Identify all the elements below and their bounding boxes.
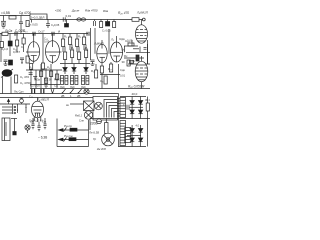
diode D1 bbox=[63, 64, 67, 74]
band switch lines bbox=[0, 104, 30, 114]
resistor R10 bbox=[76, 39, 79, 52]
resistor R15 right bbox=[146, 97, 149, 147]
diode D10 bbox=[130, 138, 134, 142]
link wire with cap plus bbox=[123, 103, 143, 110]
wire drop x66 bbox=[66, 20, 68, 24]
resistor R12 bbox=[15, 75, 18, 83]
label 2V marks bbox=[61, 94, 81, 98]
svg-text:С₁₀: С₁₀ bbox=[23, 29, 28, 33]
diode D7 bbox=[138, 110, 142, 114]
lamp resistor bbox=[105, 119, 108, 134]
svg-text:С₅: С₅ bbox=[21, 45, 24, 49]
wire between tubes bbox=[42, 34, 44, 71]
diode D8 bbox=[130, 129, 134, 133]
IF can L3 bbox=[82, 76, 89, 85]
tube V2 triode bbox=[46, 34, 62, 64]
svg-text:С₇ 0,05: С₇ 0,05 bbox=[102, 29, 111, 33]
svg-text:R₂₂ 0,056М: R₂₂ 0,056М bbox=[128, 85, 145, 89]
wire top bus left bbox=[0, 15, 30, 17]
svg-text:С₁₇ 0,05: С₁₇ 0,05 bbox=[30, 84, 40, 88]
svg-text:R₃: R₃ bbox=[78, 35, 81, 39]
filament arrow 2 bbox=[59, 138, 89, 141]
fuse bbox=[97, 119, 102, 124]
bottom right line bbox=[119, 146, 147, 148]
ground bbox=[1, 25, 6, 28]
antenna panel bbox=[2, 118, 10, 141]
svg-text:R₁: R₁ bbox=[64, 35, 67, 39]
svg-text:Лк3а: Лк3а bbox=[34, 78, 40, 82]
capacitor C4 blob bbox=[65, 24, 69, 28]
wire drop from block bbox=[46, 16, 48, 20]
wire from block down bbox=[31, 20, 33, 23]
resistor R10b bbox=[78, 47, 81, 64]
IF can L1 bbox=[61, 76, 68, 85]
capacitor series bus2 a bbox=[33, 32, 35, 36]
right rail bbox=[147, 44, 149, 64]
motor circle bbox=[95, 102, 103, 110]
wire bus2 bbox=[0, 33, 88, 35]
resistor R6 bbox=[16, 40, 19, 52]
svg-text:Схх: Схх bbox=[30, 121, 35, 124]
svg-text:R₅: R₅ bbox=[29, 66, 32, 70]
diode D4 bbox=[130, 101, 134, 105]
svg-text:Рн.пр: Рн.пр bbox=[64, 124, 72, 128]
resistor R7 bbox=[22, 38, 25, 52]
tube V7 magic eye bbox=[32, 98, 44, 123]
svg-text:Rдв: Rдв bbox=[103, 9, 109, 13]
right column text specks bbox=[120, 37, 133, 64]
IF can L2 bbox=[71, 76, 78, 85]
mid ladder wires bbox=[63, 34, 84, 40]
svg-text:Дн 4Об: Дн 4Об bbox=[96, 147, 106, 150]
wire verticals mid right bbox=[91, 28, 110, 60]
svg-text:Сдв: Сдв bbox=[130, 59, 135, 63]
switch tick 2 bbox=[64, 138, 67, 142]
tube V5 heptode top right bbox=[136, 20, 148, 44]
diode D2 bbox=[72, 64, 76, 74]
coil Lk2a variable bbox=[1, 69, 13, 94]
resistor R3 bbox=[100, 20, 103, 28]
svg-text:R₂: R₂ bbox=[71, 46, 74, 50]
svg-text:Сх: Сх bbox=[121, 48, 125, 52]
left ladder wires bbox=[1, 34, 24, 63]
dial lamp block 2x0,5 bbox=[30, 14, 47, 20]
svg-text:R₁₆: R₁₆ bbox=[91, 69, 95, 73]
capacitor blob C8 bbox=[8, 41, 12, 56]
svg-text:R₇1,0: R₇1,0 bbox=[54, 78, 61, 82]
svg-text:40,0: 40,0 bbox=[132, 92, 138, 96]
svg-text:R₆: R₆ bbox=[47, 66, 50, 70]
resistor R8b bbox=[64, 47, 67, 64]
capacitor C6 bbox=[94, 20, 96, 27]
svg-text:С₁₆ 30: С₁₆ 30 bbox=[44, 78, 52, 82]
svg-text:Rх: Rх bbox=[124, 54, 128, 58]
chassis line 1 bbox=[0, 93, 119, 95]
lower mid cluster bbox=[26, 64, 62, 89]
tube V4 bbox=[111, 36, 124, 62]
svg-text:С₂₅: С₂₅ bbox=[29, 94, 33, 98]
svg-text:0,01: 0,01 bbox=[120, 74, 126, 78]
svg-text:Сх17: Сх17 bbox=[38, 30, 45, 34]
wire v x90 bbox=[89, 119, 91, 131]
switch contacts bbox=[62, 89, 82, 94]
svg-text:R₄1,0: R₄1,0 bbox=[1, 47, 8, 51]
right mid components bbox=[124, 40, 150, 66]
wire drop left bbox=[3, 16, 5, 22]
svg-text:Лк₅ Сдп: Лк₅ Сдп bbox=[14, 90, 24, 94]
capacitor series bus2 c bbox=[87, 32, 89, 36]
svg-text:Схх: Схх bbox=[42, 121, 47, 124]
svg-text:С₁ 470: С₁ 470 bbox=[20, 75, 29, 79]
rectifier top line bbox=[120, 96, 146, 98]
resistor under tube C bbox=[100, 66, 103, 89]
wire h line y88.5 bbox=[30, 88, 150, 90]
tube V1 triode bbox=[26, 34, 40, 64]
filament arrow 1 bbox=[59, 128, 89, 131]
svg-text:2В: 2В bbox=[77, 94, 81, 98]
rectifier column wires bbox=[132, 97, 141, 119]
diode D11 bbox=[138, 138, 142, 142]
trimmer arrow bbox=[7, 99, 9, 104]
svg-text:Рн.тв: Рн.тв bbox=[64, 134, 73, 138]
svg-text:+: + bbox=[123, 103, 125, 107]
capacitor C3 series on bus bbox=[63, 17, 65, 21]
svg-text:ЛкС: ЛкС bbox=[70, 85, 75, 89]
speaker Gr bbox=[102, 133, 115, 146]
output transformer winding bbox=[117, 99, 120, 117]
resistor R9 bbox=[69, 37, 72, 50]
svg-text:ЛкС: ЛкС bbox=[60, 85, 65, 89]
svg-text:Сдв: Сдв bbox=[120, 68, 125, 72]
resistor series bus2 bbox=[2, 32, 8, 35]
svg-text:2В: 2В bbox=[61, 94, 65, 98]
power transformer winding lower bbox=[120, 121, 126, 146]
secondary winding box bbox=[125, 128, 131, 143]
svg-text:≈250: ≈250 bbox=[55, 9, 62, 13]
jack circle bbox=[20, 98, 24, 104]
svg-text:С₂₄: С₂₄ bbox=[125, 39, 130, 43]
svg-text:R₂₀ 470: R₂₀ 470 bbox=[118, 11, 129, 15]
wire h y118.5 bbox=[90, 118, 150, 120]
phono jack block bbox=[84, 101, 95, 111]
resistor R11b bbox=[85, 45, 88, 64]
svg-text:Л₄ 6Е1П: Л₄ 6Е1П bbox=[36, 97, 50, 101]
svg-text:Л₅6И1П: Л₅6И1П bbox=[136, 11, 149, 15]
resistor R11 bbox=[83, 37, 86, 50]
resistor R5 series on bus bbox=[132, 18, 139, 22]
diode D9 bbox=[138, 129, 142, 133]
svg-text:30: 30 bbox=[122, 60, 126, 64]
diode D6 bbox=[130, 110, 134, 114]
wire drop x21 bbox=[20, 16, 22, 23]
resistor R9b bbox=[71, 45, 74, 64]
svg-text:С₂₀: С₂₀ bbox=[54, 84, 58, 88]
filament drops bbox=[31, 118, 46, 131]
coupling caps on chassis bbox=[32, 89, 54, 94]
svg-text:0,047: 0,047 bbox=[13, 50, 20, 54]
svg-text:2×0,5 ДБЛ: 2×0,5 ДБЛ bbox=[31, 15, 45, 19]
right mid cluster bbox=[91, 60, 121, 89]
wire x17.5 bbox=[17, 104, 18, 113]
switch tick 1 bbox=[64, 128, 67, 132]
svg-text:Сд 4700: Сд 4700 bbox=[19, 11, 31, 15]
svg-text:Rн0,1: Rн0,1 bbox=[75, 114, 82, 118]
wire top bus right bbox=[47, 19, 143, 21]
svg-text:4,0: 4,0 bbox=[136, 125, 140, 128]
svg-text:30,0: 30,0 bbox=[145, 98, 150, 102]
rectifier lower columns bbox=[132, 125, 141, 147]
svg-text:Лн 6,3В: Лн 6,3В bbox=[88, 131, 99, 135]
capacitor C1 bbox=[1, 21, 6, 25]
ground post bbox=[11, 119, 17, 135]
resistor R left edge bbox=[0, 42, 3, 48]
svg-text:Л₂: Л₂ bbox=[110, 38, 114, 42]
wire zv bbox=[66, 103, 84, 107]
tube V3 bbox=[97, 40, 108, 66]
capacitor C5 bbox=[46, 20, 50, 29]
svg-text:Rдв 4700: Rдв 4700 bbox=[85, 9, 98, 13]
svg-text:Др.вч: Др.вч bbox=[71, 9, 80, 13]
pickup circle bbox=[84, 111, 92, 119]
resistor on wire between tubes bbox=[41, 63, 44, 69]
wire h line y63.5 bbox=[60, 63, 90, 65]
wire vertical x88.5 bbox=[88, 120, 90, 147]
svg-text:~ 6,3В: ~ 6,3В bbox=[38, 136, 47, 140]
svg-text:220В: 220В bbox=[90, 122, 97, 126]
resistor R2 bbox=[26, 21, 29, 27]
power transformer winding upper bbox=[119, 94, 126, 148]
svg-text:С₆0,05: С₆0,05 bbox=[51, 23, 60, 27]
resistor R1 under bus bbox=[9, 16, 16, 19]
svg-text:И: И bbox=[58, 30, 60, 34]
diode D3 bbox=[84, 64, 88, 74]
svg-text:0,01: 0,01 bbox=[66, 14, 72, 18]
svg-text:С₂₁: С₂₁ bbox=[100, 79, 104, 83]
svg-text:≈4,5B: ≈4,5B bbox=[1, 11, 11, 15]
svg-text:Гр: Гр bbox=[93, 137, 97, 141]
diode D5 bbox=[138, 101, 142, 105]
choke Dr1 bbox=[77, 18, 86, 21]
capacitor C2 bbox=[19, 22, 23, 34]
svg-text:С₁₈: С₁₈ bbox=[44, 84, 48, 88]
wire x26 bbox=[25, 104, 26, 113]
resistor R4 bbox=[113, 20, 116, 28]
svg-text:R₁₇: R₁₇ bbox=[108, 67, 112, 71]
lower link with cap bbox=[127, 125, 141, 136]
svg-text:ЛкС: ЛкС bbox=[81, 85, 86, 89]
chassis line 2 bbox=[0, 97, 93, 99]
terminal A1 bbox=[142, 18, 145, 21]
output section box bbox=[93, 97, 118, 121]
capacitor series bus2 b bbox=[52, 32, 54, 36]
svg-text:0,05: 0,05 bbox=[44, 39, 50, 43]
pickup connector bbox=[25, 125, 30, 133]
svg-text:Слн: Слн bbox=[79, 119, 84, 123]
capacitor series bus2 d bbox=[15, 32, 17, 36]
left mid components bbox=[4, 56, 30, 66]
capacitor C7 blob bbox=[106, 20, 110, 27]
wire corner bottom left bbox=[57, 119, 89, 147]
resistor R8 bbox=[62, 39, 65, 52]
dial lamp circle bbox=[84, 89, 89, 94]
tube V6 output pentode bbox=[135, 56, 148, 89]
